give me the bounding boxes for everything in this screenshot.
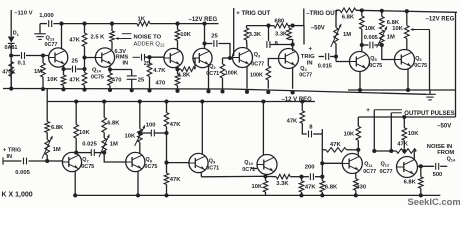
- svg-text:–12V REG: –12V REG: [189, 17, 218, 23]
- svg-text:1M: 1M: [53, 147, 61, 153]
- potentiometer 10K (Q6 collector): [405, 9, 409, 13]
- transistor Q13 0C77: [49, 48, 68, 67]
- resistor 47K (upper, Q9 base): [166, 102, 168, 113]
- svg-text:1,000: 1,000: [39, 13, 54, 19]
- svg-text:0C71: 0C71: [242, 167, 255, 173]
- svg-text:200: 200: [305, 164, 315, 170]
- transistor Q8 0C75: [126, 152, 145, 171]
- svg-text:1M: 1M: [34, 69, 42, 75]
- transistor Q6 0C75: [395, 50, 415, 70]
- svg-text:0C77: 0C77: [45, 42, 58, 48]
- potentiometer 1M (Q5 base): [335, 10, 337, 27]
- node + TRIG OUT: [233, 8, 235, 56]
- resistor 1.8K: [178, 68, 182, 70]
- svg-text:47K: 47K: [170, 122, 181, 128]
- svg-text:–TRIG OUT: –TRIG OUT: [306, 11, 338, 17]
- transistor Q3 0C77: [233, 48, 253, 68]
- svg-text:10K: 10K: [392, 26, 403, 32]
- wire bottom rail: [74, 194, 440, 196]
- svg-text:Q10: Q10: [244, 160, 253, 166]
- svg-text:10K: 10K: [180, 32, 191, 38]
- capacitor 0.025: [76, 152, 91, 154]
- svg-text:47K: 47K: [330, 142, 341, 148]
- resistor 680 in multivibrator rail: [247, 25, 275, 27]
- label NOISE TO ADDER Q12: [122, 33, 132, 35]
- wire Q3 emitter: [246, 66, 248, 89]
- resistor 47K: [299, 181, 304, 192]
- resistor 3.3K: [276, 174, 290, 179]
- node + TRIG IN with capacitor 0.005: [2, 157, 4, 164]
- wire Q9 emitter to Q10 emitter: [200, 172, 202, 177]
- svg-text:10K: 10K: [125, 133, 136, 139]
- svg-text:1M: 1M: [343, 32, 351, 38]
- svg-text:10K: 10K: [365, 26, 376, 32]
- resistor 470 (Q1 emitter): [177, 66, 179, 75]
- svg-text:–12V REG: –12V REG: [426, 17, 455, 23]
- svg-text:0.005: 0.005: [364, 35, 378, 41]
- svg-text:Q6: Q6: [415, 56, 422, 62]
- svg-text:0C71: 0C71: [206, 166, 219, 172]
- svg-text:47K: 47K: [397, 141, 408, 147]
- potentiometer 1M (Q6 base): [380, 30, 385, 44]
- transistor Q11 0C77: [342, 154, 362, 174]
- transistor Q2 0C71: [193, 48, 212, 67]
- svg-text:IN: IN: [7, 154, 13, 160]
- wire Q10 collector: [262, 102, 264, 156]
- svg-text:+ TRIG: + TRIG: [3, 147, 21, 153]
- junction dots on common rail: [9, 87, 13, 91]
- resistor 47K (Q12 base feed): [374, 150, 396, 152]
- potentiometer 1M (Q8 base): [102, 138, 107, 153]
- wire Q2 collector: [204, 24, 206, 49]
- svg-text:10K: 10K: [408, 131, 419, 137]
- svg-text:Q14: Q14: [447, 156, 456, 162]
- svg-text:IN: IN: [123, 61, 129, 67]
- svg-text:0.015: 0.015: [318, 64, 332, 70]
- resistor 100K (Q3 base): [222, 58, 224, 64]
- transistor Q7 0C75: [62, 152, 81, 171]
- svg-text:+: +: [366, 107, 370, 114]
- svg-text:3.3K: 3.3K: [276, 181, 289, 187]
- svg-text:0.005: 0.005: [15, 170, 30, 176]
- svg-text:Q5: Q5: [370, 56, 377, 62]
- resistor 1M: [41, 53, 45, 57]
- wire Q9 base: [167, 162, 190, 164]
- transistor Q10 0C71: [257, 155, 277, 175]
- resistor 6.8K: [320, 181, 325, 192]
- svg-text:0.1: 0.1: [18, 60, 27, 66]
- svg-text:47K: 47K: [69, 37, 80, 43]
- resistor 10K (Q11 collector): [357, 117, 359, 126]
- svg-text:1K: 1K: [138, 17, 146, 23]
- svg-text:0C75: 0C75: [414, 63, 427, 69]
- node -TRIG OUT: [303, 9, 305, 26]
- resistor 10K (Q1 collector load): [177, 41, 179, 51]
- svg-text:6.8K: 6.8K: [404, 179, 417, 185]
- svg-text:–50V: –50V: [437, 123, 451, 129]
- svg-text:680: 680: [275, 18, 285, 24]
- svg-text:2.5 K: 2.5 K: [91, 34, 106, 40]
- svg-text:6.8K: 6.8K: [342, 15, 355, 21]
- wire Q14 base: [85, 57, 96, 59]
- capacitor 25 (trigger coupling to Q3): [205, 43, 213, 45]
- capacitor 200: [302, 176, 309, 178]
- resistor 10K (Q7 collector): [75, 138, 77, 153]
- svg-text:Q11: Q11: [364, 162, 373, 168]
- svg-text:–12 V REG: –12 V REG: [282, 97, 313, 103]
- svg-text:6.8K: 6.8K: [387, 20, 400, 26]
- resistor 47K (Q11 input chain): [301, 102, 303, 111]
- svg-text:25: 25: [72, 58, 79, 64]
- svg-text:0C77: 0C77: [380, 169, 393, 175]
- svg-text:100K: 100K: [250, 72, 263, 78]
- svg-text:470K: 470K: [2, 69, 15, 75]
- svg-text:10K: 10K: [47, 77, 58, 83]
- svg-text:470: 470: [112, 78, 122, 84]
- transistor Q5 0C75: [350, 52, 370, 72]
- svg-text:OUTPUT PULSES: OUTPUT PULSES: [404, 111, 454, 117]
- svg-text:Q14: Q14: [92, 67, 102, 73]
- wire Q7 emitter: [74, 171, 76, 196]
- svg-text:4.7K: 4.7K: [153, 68, 166, 74]
- capacitor 500 (noise input): [418, 165, 435, 167]
- wire Q11 base: [322, 162, 342, 164]
- resistor 47K (upper, Q14 base): [82, 22, 86, 26]
- wire Q11 input column: [321, 129, 323, 177]
- svg-text:6.8K: 6.8K: [107, 120, 120, 126]
- wiper arrow of 10K pot with feedback wire: [412, 29, 430, 31]
- wire -12V REG rail: [356, 10, 457, 12]
- svg-text:0C77: 0C77: [251, 62, 264, 68]
- svg-text:1M: 1M: [387, 34, 395, 40]
- svg-text:NOISE TO: NOISE TO: [134, 34, 162, 40]
- resistor 10K (Q10 emitter): [265, 174, 267, 176]
- svg-text:FROM: FROM: [437, 150, 454, 156]
- svg-text:Q13: Q13: [46, 36, 56, 42]
- svg-text:470: 470: [156, 80, 166, 86]
- wire top supply rail right part: [150, 23, 219, 25]
- resistor 470K: [9, 62, 14, 77]
- svg-text:3.3K: 3.3K: [275, 32, 288, 38]
- resistor 10K (Q12 collector): [402, 115, 406, 119]
- svg-text:500: 500: [433, 172, 443, 178]
- svg-text:Q9: Q9: [209, 159, 216, 165]
- svg-text:–110 V: –110 V: [14, 10, 32, 16]
- wire top supply rail: [53, 23, 137, 25]
- wire common rail (top section bottom): [3, 89, 426, 95]
- svg-text:6.8K: 6.8K: [325, 184, 338, 190]
- svg-text:0C75: 0C75: [91, 75, 104, 81]
- svg-text:+ TRIG OUT: + TRIG OUT: [236, 11, 270, 17]
- svg-text:0C75: 0C75: [369, 63, 382, 69]
- resistor 47K (lower, Q9 base): [166, 127, 168, 174]
- transistor Q12 0C77: [397, 157, 418, 178]
- resistor 6.8K (Q12 emitter): [420, 166, 422, 177]
- transistor Q9 0C71: [189, 153, 208, 172]
- svg-text:10K: 10K: [79, 130, 90, 136]
- potentiometer 1M (Q7 base): [46, 133, 48, 140]
- svg-text:0C77: 0C77: [299, 73, 312, 79]
- resistor 47K (Q11 collector branch): [322, 149, 326, 151]
- svg-text:NOISE IN: NOISE IN: [427, 144, 452, 150]
- resistor 6.8K in -12V REG rail: [336, 9, 340, 11]
- svg-text:47K: 47K: [69, 78, 80, 84]
- resistor 6.8K (Q8 base): [103, 102, 105, 118]
- wire Q2 emitter: [208, 66, 210, 89]
- svg-text:100: 100: [146, 122, 156, 128]
- svg-text:IN: IN: [307, 60, 313, 66]
- svg-text:330: 330: [356, 184, 366, 190]
- svg-text:Q7: Q7: [82, 157, 88, 163]
- resistor 6.8K (Q6 base): [380, 9, 384, 13]
- wire Q9 collector: [201, 102, 203, 155]
- svg-text:SeekIC.com: SeekIC.com: [408, 196, 460, 207]
- svg-text:0C75: 0C75: [145, 164, 158, 170]
- svg-text:0C77: 0C77: [363, 169, 376, 175]
- capacitor 8: [302, 123, 307, 134]
- svg-text:6.8K: 6.8K: [51, 125, 64, 131]
- capacitor 1,000: [40, 23, 47, 25]
- svg-text:25: 25: [211, 34, 218, 40]
- svg-text:3.3K: 3.3K: [249, 32, 262, 38]
- resistor 100K (Q4 base): [268, 59, 278, 67]
- svg-text:10K: 10K: [344, 131, 355, 137]
- wire Q13 collector: [61, 24, 63, 50]
- svg-text:–50V: –50V: [311, 26, 325, 32]
- transistor Q1: [164, 48, 183, 67]
- resistor 10K (Q13 emitter): [63, 65, 65, 75]
- svg-text:Q8: Q8: [146, 157, 153, 163]
- wire Q7 base: [47, 160, 62, 162]
- resistor 330 (Q11 emitter): [355, 173, 357, 179]
- resistor 10K (Q5 collector): [360, 8, 364, 12]
- ground: [39, 24, 41, 34]
- svg-text:47K: 47K: [287, 118, 298, 124]
- svg-text:1.8K: 1.8K: [178, 73, 191, 79]
- wire -12V REG bus (bottom section): [46, 89, 48, 102]
- transistor Q4 0C77: [279, 49, 299, 69]
- svg-text:0.025: 0.025: [82, 141, 97, 147]
- svg-text:Q3: Q3: [254, 52, 261, 58]
- ground: [348, 89, 456, 91]
- svg-text:+: +: [309, 47, 313, 53]
- capacitor 25 (input coupling): [133, 56, 141, 58]
- resistor 3.3K (Q4 collector): [287, 28, 292, 40]
- svg-text:Q2: Q2: [209, 64, 216, 70]
- wire right edge: [455, 12, 457, 117]
- wire -50V supply line: [358, 116, 455, 118]
- svg-text:0A81: 0A81: [5, 45, 18, 51]
- svg-text:10K: 10K: [252, 184, 263, 190]
- wire Q8 emitter: [137, 171, 139, 196]
- capacitor 25 (Q13-Q14 coupling): [64, 68, 72, 70]
- capacitor 100: [140, 132, 151, 134]
- svg-text:ADDER Q12: ADDER Q12: [134, 41, 166, 47]
- svg-text:47K: 47K: [305, 184, 316, 190]
- diode D1 0A81: [8, 37, 15, 43]
- svg-text:0C75: 0C75: [81, 164, 94, 170]
- wire -110V supply column: [10, 10, 12, 36]
- transistor Q14 0C75: [95, 48, 114, 67]
- resistor 6.8K (Q7 base): [46, 102, 48, 122]
- svg-text:Q12: Q12: [381, 161, 390, 167]
- wiper arrow of 2.5K pot (noise to adder Q12): [117, 38, 132, 40]
- junction dots on -12V REG bus: [74, 99, 78, 103]
- capacitor 8: [268, 26, 270, 41]
- capacitor 0.1 in Q13 base wire: [11, 55, 20, 57]
- svg-text:25: 25: [138, 78, 145, 84]
- resistor 3.3K (Q3 collector): [246, 26, 248, 28]
- svg-text:47K: 47K: [170, 177, 181, 183]
- svg-text:1M: 1M: [110, 142, 118, 148]
- resistor 470 (Q14 emitter): [109, 65, 111, 73]
- potentiometer 2.5K (Q14 collector): [110, 22, 114, 26]
- resistor 4.7K: [147, 55, 151, 59]
- svg-text:100K: 100K: [225, 71, 238, 77]
- svg-text:K X 1,000: K X 1,000: [2, 192, 33, 199]
- svg-text:Q4: Q4: [300, 66, 307, 72]
- capacitor 25 (emitter bypass): [110, 69, 132, 71]
- resistor 47K (lower, Q14 base): [84, 47, 86, 73]
- svg-text:TRIG: TRIG: [301, 54, 315, 60]
- potentiometer 10K (Q8 collector): [139, 142, 141, 153]
- resistor 1K in supply rail: [137, 21, 150, 26]
